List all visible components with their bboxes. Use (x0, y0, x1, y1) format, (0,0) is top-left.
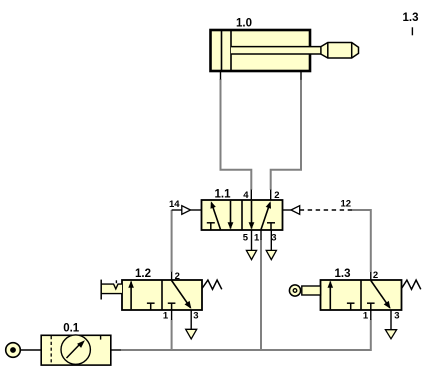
cylinder 1.0 (211, 30, 359, 80)
right square: arrow 2->3 (172, 281, 191, 308)
right square: arrow 2->3 (371, 281, 390, 308)
right square: arrow 1->2 (261, 203, 270, 230)
svg-text:2: 2 (373, 270, 378, 281)
right square: blocked port 1 (367, 302, 375, 304)
exhaust triangle port 3 (385, 330, 396, 339)
right square: blocked port 3 (267, 222, 275, 224)
svg-text:3: 3 (193, 310, 198, 321)
svg-text:2: 2 (175, 271, 180, 282)
left square: arrow 1->2 (130, 282, 132, 310)
valve 1.3 (3/2 way, roller, spring return) (289, 272, 420, 339)
wire valve 1.2 port 2 to pilot 14 of valve 1.1 (171, 210, 173, 272)
wire valve 1.3 port 2 to pilot 12 of valve 1.1 (352, 210, 371, 272)
exhaust triangle port 3 (186, 329, 197, 339)
pilot signal dashed line 12 (300, 209, 352, 211)
marker 1.3 (cylinder actuation position) (403, 12, 419, 36)
roller actuator (302, 286, 321, 295)
pilot 12 right (283, 209, 292, 211)
svg-text:1.3: 1.3 (335, 268, 351, 280)
svg-text:1.2: 1.2 (135, 268, 151, 280)
exhaust triangle port 5 (246, 250, 256, 259)
port labels valve 1.3 (363, 270, 400, 322)
wire supply line from unit 0.1 to valves (121, 240, 371, 350)
left square: arrow 1->2 (329, 282, 331, 310)
port stubs (370, 272, 372, 280)
air service unit 0.1 (41, 335, 121, 365)
compressed air source (6, 343, 42, 358)
left square: blocked port 5 (207, 222, 215, 224)
port labels valve 1.2 (163, 271, 199, 321)
svg-text:1: 1 (254, 233, 260, 244)
svg-text:1: 1 (163, 310, 169, 321)
svg-text:3: 3 (394, 311, 399, 322)
svg-text:4: 4 (243, 190, 249, 201)
port stubs (250, 190, 252, 200)
left square: blocked port 3 (147, 302, 155, 304)
left square: arrow 2->3 (230, 201, 232, 229)
svg-text:2: 2 (274, 190, 279, 201)
valve 1.2 (3/2 way, detent button, spring return) (101, 272, 222, 339)
svg-text:14: 14 (169, 199, 180, 210)
spring return (402, 280, 421, 289)
wire cylinder right port to valve 1.1 port 2 (271, 79, 301, 190)
left square: blocked port 3 (347, 302, 355, 304)
left square: arrow 1->4 (212, 203, 221, 230)
pilot 14 left (172, 209, 182, 211)
valve 1.1 (5/2 way double pilot) (172, 190, 352, 260)
right square: blocked port 1 (168, 302, 176, 304)
svg-text:12: 12 (341, 199, 352, 210)
spring return (202, 280, 222, 289)
svg-text:1.0: 1.0 (236, 18, 252, 30)
exhaust triangle port 3 (266, 250, 276, 259)
svg-text:3: 3 (271, 233, 276, 244)
port stubs (171, 272, 173, 280)
svg-text:1.1: 1.1 (215, 189, 232, 201)
wire cylinder left port to valve 1.1 port 4 (221, 79, 252, 190)
svg-text:1.3: 1.3 (403, 12, 419, 24)
right square: arrow 4->5 (251, 201, 253, 229)
port labels valve 1.1 (169, 190, 351, 244)
detent button actuator (101, 284, 122, 294)
svg-text:5: 5 (243, 233, 249, 244)
svg-text:0.1: 0.1 (63, 323, 80, 335)
svg-text:1: 1 (363, 311, 369, 322)
